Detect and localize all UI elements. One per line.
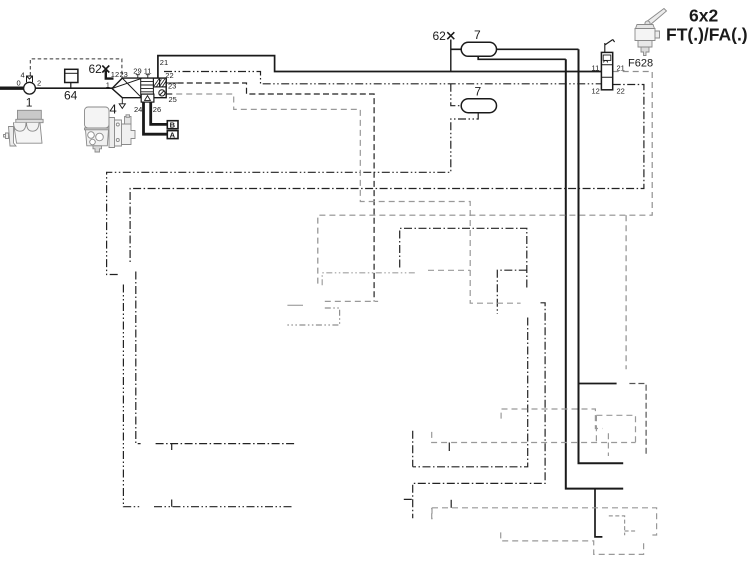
F628 valve symbol xyxy=(601,40,614,90)
svg-text:64: 64 xyxy=(64,89,78,103)
wire governor control dashed xyxy=(30,59,122,78)
dryer delivery 26 to port B xyxy=(151,102,168,124)
svg-text:22: 22 xyxy=(617,86,625,95)
svg-text:7: 7 xyxy=(475,84,482,98)
svg-text:24: 24 xyxy=(134,105,142,114)
air tank 7 top xyxy=(461,42,496,56)
wire 62 stub at lower49 xyxy=(450,500,452,508)
air dryer unit symbol 4 xyxy=(112,75,178,109)
svg-text:12: 12 xyxy=(592,86,600,95)
wire B306 supply tee xyxy=(579,383,617,385)
wire 62 stub at B256 line xyxy=(171,500,173,507)
svg-text:23: 23 xyxy=(120,70,128,79)
wire pilot enclosure at B309 valve xyxy=(609,516,636,535)
port B box xyxy=(167,121,178,130)
svg-text:7: 7 xyxy=(474,28,481,42)
wire B306 port 2 to D879 port 13 xyxy=(629,384,646,456)
svg-text:22: 22 xyxy=(165,71,173,80)
wire trunk vertical left to D879 port 11 xyxy=(566,59,623,488)
compressor drawing xyxy=(4,110,44,146)
wire line 21 gray from F628 port 21 to B308 port 42 and B306 port 42 xyxy=(318,72,652,370)
svg-text:F628: F628 xyxy=(628,58,653,70)
svg-text:23: 23 xyxy=(168,81,176,90)
wire lower enclosure top y=507.8 xyxy=(432,508,657,535)
wire rear service line y=442.5 xyxy=(432,432,636,456)
svg-text:62: 62 xyxy=(89,62,103,76)
wire upper 10 cluster enclosure xyxy=(596,415,635,442)
wire trunk vertical right to D879 port 12 xyxy=(579,49,624,463)
wire B256 feed dash-dot-dot from B307 port 2 bottom xyxy=(123,285,293,507)
wire B309 valve feed from port11 line xyxy=(595,489,602,537)
wire B308 port 21 loop to coupling xyxy=(287,308,339,325)
svg-text:29: 29 xyxy=(133,66,141,75)
svg-text:11: 11 xyxy=(592,63,600,72)
wire B308 port 22 coupling line xyxy=(287,304,303,306)
wire valve 52 port 1 to tee xyxy=(428,269,470,271)
wire 62 stub at rear line xyxy=(448,443,450,452)
test point 62 at main line xyxy=(447,32,454,39)
F628 drawing hand brake valve xyxy=(635,9,667,56)
wire line 25 gray long dash from dryer to valve 33 port 1 xyxy=(166,94,520,303)
GRAY DASHED LINES xyxy=(166,72,656,555)
svg-text:6x2: 6x2 xyxy=(689,6,718,26)
wire 62 stub at B257 line xyxy=(171,444,173,450)
compressor symbol 1 xyxy=(0,76,112,94)
svg-text:21: 21 xyxy=(617,63,625,72)
wire tank1 bottom line to left trunk xyxy=(478,56,566,59)
svg-text:12: 12 xyxy=(111,70,119,79)
wire dash-dot enclosure of valve 52 to valve 33 port 4 xyxy=(400,228,528,466)
svg-text:4: 4 xyxy=(110,102,117,117)
port A box xyxy=(167,131,178,140)
svg-text:1: 1 xyxy=(26,96,33,110)
DASHED CONTROL LINES dark xyxy=(107,72,644,519)
svg-text:4: 4 xyxy=(21,71,25,80)
wire 62 test point riser at main line xyxy=(450,40,452,72)
wire chamber 14 mid port 11 line xyxy=(501,409,602,429)
svg-text:62: 62 xyxy=(433,29,447,43)
air tank 7 second xyxy=(461,99,496,113)
svg-text:0: 0 xyxy=(17,79,21,88)
wire valve 33 port 2 right to lower 49 port 12 xyxy=(404,303,545,519)
dryer delivery 24 to port A xyxy=(144,102,168,134)
wire valve 52 port 22 gray dash-dot-dot to B308 port 43 xyxy=(322,273,415,286)
svg-text:B: B xyxy=(170,121,176,130)
svg-text:25: 25 xyxy=(169,95,177,104)
wire line 22 front axle dash-dot from F628 port 22 to B307 port 4 xyxy=(130,85,644,264)
wire B257 feed dash-dot from B307 port 2 xyxy=(136,272,296,444)
test point 62 on port 12 xyxy=(102,66,113,79)
wire main supply from port 21 of dryer to F628 port 11 xyxy=(158,56,602,79)
svg-text:1: 1 xyxy=(106,81,110,90)
wire tank1 top line to right trunk xyxy=(451,48,579,50)
svg-text:21: 21 xyxy=(160,58,168,67)
svg-text:2: 2 xyxy=(37,79,41,88)
wire B308 port 11 to tank 7 xyxy=(325,300,378,302)
wire line 22 dash-dot-dot from dryer port 22 to F628 port 12 and B307 port 1 xyxy=(107,72,602,275)
wire lower bottom dashed from chamber 14#3 xyxy=(501,532,644,554)
governor 64 xyxy=(65,69,78,88)
svg-text:11: 11 xyxy=(144,66,152,75)
svg-text:26: 26 xyxy=(153,105,161,114)
air dryer drawing EAC xyxy=(85,107,136,152)
svg-text:FT(.)/FA(.): FT(.)/FA(.) xyxy=(666,25,748,45)
svg-text:A: A xyxy=(170,131,176,140)
wire line 23 dark long dash from dryer to B308 tank line xyxy=(178,83,375,301)
